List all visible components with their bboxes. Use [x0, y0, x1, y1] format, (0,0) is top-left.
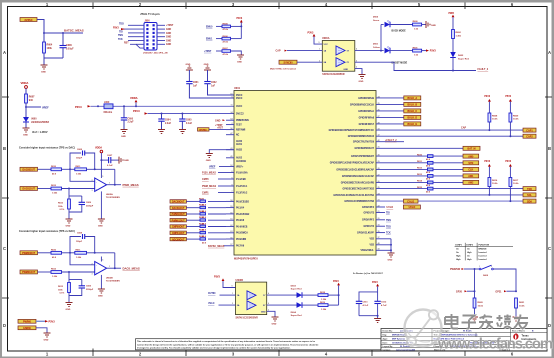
svg-text:R612: R612 [51, 185, 57, 187]
port CLK [463, 167, 479, 171]
svg-text:UVLO: UVLO [409, 206, 416, 209]
port CALO [404, 199, 419, 203]
svg-text:JTAG2X7_254_5P1L-2N: JTAG2X7_254_5P1L-2N [143, 52, 168, 55]
svg-text:C: C [3, 246, 6, 251]
svg-text:GND: GND [98, 296, 103, 298]
svg-text:R611: R611 [417, 161, 423, 163]
svg-text:C609: C609 [86, 286, 92, 288]
svg-text:U601: U601 [234, 87, 241, 90]
svg-text:This schematic is shared a lic: This schematic is shared a licensed as-i… [137, 340, 316, 343]
svg-text:P5V0: P5V0 [505, 96, 511, 98]
watermark char 1 [462, 316, 477, 329]
wire gnd pin [355, 69, 362, 75]
svg-text:P3V3: P3V3 [75, 105, 82, 109]
wire [43, 58, 45, 65]
svg-text:A: A [3, 50, 6, 55]
svg-text:P6.0/CB1SO: P6.0/CB1SO [236, 201, 249, 203]
MCU right pin numbers [378, 95, 381, 250]
port PWM60OUT [20, 251, 38, 255]
svg-text:GND: GND [431, 25, 436, 27]
svg-text:BUCK MODE: BUCK MODE [392, 31, 407, 33]
svg-text:P3V3: P3V3 [237, 18, 243, 20]
svg-text:AUX3/CB: AUX3/CB [236, 160, 246, 163]
port GND60 [18, 326, 36, 330]
svg-text:4.7uF: 4.7uF [381, 304, 387, 307]
svg-text:Drawn By:: Drawn By: [383, 331, 393, 333]
svg-text:GPIO/CLKUPWM/MCUSYN0: GPIO/CLKUPWM/MCUSYN0 [344, 201, 374, 203]
power P3V3 pullup1 [484, 96, 491, 106]
MCU right pin names [329, 98, 375, 252]
svg-text:SN74LVC2G34DBVR: SN74LVC2G34DBVR [322, 73, 345, 76]
svg-text:100k: 100k [47, 47, 53, 50]
node junction [25, 106, 27, 108]
svg-text:Yellow: Yellow [373, 47, 380, 49]
svg-text:Super Red: Super Red [291, 289, 303, 291]
watermark char 0 [445, 314, 458, 329]
ground [359, 75, 366, 79]
svg-text:DVCC: DVCC [236, 98, 243, 100]
wire vminus [100, 275, 102, 289]
port BAT_MEAS [376, 147, 463, 149]
svg-text:Inverted: Inverted [479, 258, 488, 261]
svg-text:PWM60OUT: PWM60OUT [172, 214, 186, 216]
svg-text:TEST: TEST [236, 125, 242, 127]
svg-text:R620: R620 [199, 198, 205, 200]
svg-text:GND: GND [204, 64, 209, 66]
diode U60 LM4040 [23, 117, 50, 128]
svg-text:GPIO/UT2: GPIO/UT2 [363, 226, 374, 228]
capacitor to gnd [81, 196, 83, 202]
node TMS [376, 219, 385, 221]
svg-text:High: High [456, 255, 461, 257]
svg-text:R624: R624 [199, 222, 205, 225]
svg-text:100pF: 100pF [76, 241, 83, 243]
wire out2 [267, 304, 297, 306]
svg-text:R618: R618 [320, 292, 326, 294]
node junction [488, 129, 490, 131]
svg-text:Consider higher input resistan: Consider higher input resistance (TPS vs… [19, 147, 75, 150]
svg-text:R622: R622 [199, 211, 205, 213]
LED D602 down [450, 52, 456, 58]
ground [272, 317, 279, 321]
svg-text:VSS: VSS [369, 245, 374, 247]
svg-text:0.1%: 0.1% [60, 209, 65, 211]
svg-text:5: 5 [102, 260, 103, 262]
svg-text:R610: R610 [417, 154, 423, 156]
svg-text:MSP430 Team: MSP430 Team [392, 334, 406, 337]
svg-text:Super Red: Super Red [458, 58, 470, 60]
svg-text:2: 2 [92, 180, 93, 182]
node junction [69, 252, 71, 254]
node FAULT_2 [376, 141, 404, 143]
svg-text:2: 2 [92, 263, 93, 265]
svg-text:BAT_M: BAT_M [467, 148, 475, 151]
node junction [69, 168, 71, 170]
svg-text:Inverted: Inverted [479, 251, 488, 254]
wire minus input [70, 253, 95, 265]
svg-text:+TRST: +TRST [215, 124, 223, 127]
node junction [181, 113, 183, 115]
svg-text:2x Routes (x) for 74LVC2G17: 2x Routes (x) for 74LVC2G17 [353, 272, 384, 275]
resistor R615 [376, 188, 428, 190]
svg-text:10.0k: 10.0k [492, 183, 498, 185]
svg-text:Date:: Date: [383, 341, 388, 344]
svg-text:DVCC2: DVCC2 [236, 113, 244, 115]
wires jtag right [157, 25, 165, 44]
svg-text:D601: D601 [373, 44, 379, 46]
port SCL [523, 193, 536, 197]
ground [98, 219, 105, 223]
wire [44, 57, 63, 59]
op-amp U602A [95, 178, 107, 191]
svg-text:LM4040A25IDBZ: LM4040A25IDBZ [31, 121, 50, 124]
svg-text:GPIO/ESBPCLK2ABYPIN2/CALVDCACA: GPIO/ESBPCLK2ABYPIN2/CALVDCACAP [330, 162, 375, 165]
svg-text:P6.2/A5/CB2: P6.2/A5/CB2 [236, 213, 250, 216]
resistor R602 [452, 30, 455, 39]
svg-text:GND: GND [186, 64, 191, 66]
svg-text:TMS: TMS [118, 35, 123, 37]
svg-text:R617: R617 [513, 180, 519, 182]
node junction [452, 70, 454, 72]
port BULK_E [376, 123, 404, 125]
svg-text:GND: GND [66, 309, 71, 311]
svg-text:TMS: TMS [386, 220, 391, 222]
ground right [119, 157, 123, 164]
capacitor C607 [100, 159, 102, 161]
watermark char 2 [479, 315, 493, 329]
svg-text:Size of Sheet:: Size of Sheet: [512, 330, 525, 333]
MCU left pin stubs [226, 120, 234, 246]
ground up C601 [186, 66, 193, 70]
svg-text:C612: C612 [381, 302, 387, 304]
svg-text:10.0k: 10.0k [519, 305, 525, 307]
wire VREF stub [26, 106, 41, 108]
svg-text:C605: C605 [186, 120, 192, 122]
svg-text:2.2uF: 2.2uF [165, 123, 172, 125]
svg-text:GP20: GP20 [456, 290, 463, 293]
IC U601 body [234, 91, 376, 256]
svg-text:R609: R609 [513, 115, 519, 117]
svg-text:SN74LVC2G34DBVR: SN74LVC2G34DBVR [236, 316, 259, 319]
svg-text:1: 1 [479, 266, 480, 268]
svg-text:RST: RST [124, 43, 129, 45]
svg-text:PWR60: PWR60 [23, 322, 32, 324]
MCU left pin names [236, 95, 250, 248]
svg-text:GPIO/USCLKUPIBACTFACCLKUSYN1: GPIO/USCLKUPIBACTFACCLKUSYN1 [333, 194, 374, 197]
svg-text:10.0k: 10.0k [492, 119, 498, 121]
svg-text:GPIO/SCM2CTKG/UARTTXD2: GPIO/SCM2CTKG/UARTTXD2 [342, 188, 374, 191]
wire CAP2 net [376, 135, 523, 137]
svg-text:GPIO/UCLKUPF: GPIO/UCLKUPF [357, 233, 375, 235]
svg-text:P3V3: P3V3 [484, 161, 490, 163]
svg-text:1uF: 1uF [193, 85, 198, 87]
power P3V3 [36, 320, 45, 322]
resistor R601 row EMU0 [206, 24, 241, 32]
svg-text:PWR_MEAS: PWR_MEAS [123, 183, 139, 187]
svg-text:GND: GND [166, 29, 171, 31]
svg-text:GPIO/ERFWAUXPWART/VCOMPBURTFCC: GPIO/ERFWAUXPWART/VCOMPBURTFCC [329, 129, 375, 132]
resistor R609b [318, 304, 328, 307]
svg-text:1: 1 [109, 266, 110, 268]
resistor R621s [515, 298, 518, 308]
power VDDA [21, 81, 29, 94]
svg-text:6: 6 [268, 303, 269, 305]
svg-text:GPIO/SBW/ADC10CLK: GPIO/SBW/ADC10CLK [350, 103, 375, 106]
svg-text:NC: NC [236, 135, 240, 137]
svg-text:+TRST: +TRST [166, 25, 174, 27]
svg-text:PMM/SVSIN: PMM/SVSIN [236, 120, 249, 122]
svg-text:2.2uF: 2.2uF [128, 122, 135, 124]
svg-text:CONF1: CONF1 [455, 245, 463, 247]
svg-text:VCC: VCC [324, 44, 329, 46]
resistor R608 [488, 113, 491, 122]
svg-text:R613: R613 [58, 286, 64, 288]
svg-text:P3V3: P3V3 [214, 275, 221, 278]
svg-text:GPIO/RFWPxB: GPIO/RFWPxB [358, 98, 374, 100]
svg-text:S600: S600 [483, 275, 489, 277]
svg-text:GND: GND [23, 135, 28, 137]
svg-text:AUX1: AUX1 [236, 143, 243, 146]
wire bottom [359, 315, 378, 317]
ground [121, 130, 128, 134]
resistor R616 [186, 236, 226, 244]
svg-text:BULK_D: BULK_D [407, 117, 417, 120]
svg-text:TCK: TCK [118, 39, 123, 41]
svg-text:5: 5 [102, 176, 103, 178]
svg-text:AUX0: AUX0 [236, 140, 243, 143]
svg-text:U602A: U602A [106, 193, 113, 196]
svg-text:GPIO/ESM2CTG/UARCLK2APB: GPIO/ESM2CTG/UARCLK2APB [341, 181, 375, 184]
svg-text:CAP2: CAP2 [526, 135, 533, 138]
svg-text:AVCC: AVCC [236, 105, 243, 108]
resistor R603 row TRST [204, 48, 241, 56]
svg-text:BULK_E: BULK_E [408, 123, 418, 126]
resistor R614 [186, 222, 226, 231]
resistor R613 [376, 175, 428, 177]
resistor R-in1 [38, 252, 52, 254]
port CMP60OUT [170, 225, 186, 229]
svg-text:AUX2: AUX2 [236, 157, 243, 160]
svg-text:C600: C600 [128, 118, 134, 120]
pin numbers [92, 260, 111, 276]
svg-text:CAP1: CAP1 [526, 129, 533, 132]
node junction [240, 25, 242, 27]
svg-text:CAP: CAP [276, 50, 281, 53]
svg-text:TDO: TDO [119, 24, 124, 26]
svg-text:GPIO/UPF0: GPIO/UPF0 [362, 207, 375, 209]
svg-text:Inverted: Inverted [479, 254, 488, 257]
svg-text:R619: R619 [320, 302, 326, 304]
svg-text:0.01uF: 0.01uF [66, 47, 74, 50]
resistor R617 [509, 178, 512, 187]
svg-text:C607: C607 [107, 155, 113, 157]
svg-text:D600: D600 [373, 17, 379, 19]
svg-text:R612: R612 [51, 269, 57, 271]
svg-text:GND: GND [66, 226, 71, 228]
svg-text:TLV2780IDBV: TLV2780IDBV [106, 281, 121, 283]
power PWR [237, 18, 243, 39]
svg-text:P1.2/TA0.1: P1.2/TA0.1 [236, 185, 248, 188]
svg-text:DAC61OUT: DAC61OUT [23, 188, 36, 191]
wire output [107, 267, 121, 269]
svg-text:DAC61OUT: DAC61OUT [172, 207, 185, 210]
port DAC61OUT [20, 187, 38, 191]
svg-text:D603: D603 [291, 285, 297, 287]
svg-text:VDDA: VDDA [130, 96, 138, 100]
power P5V0 pullup2 [505, 96, 512, 106]
svg-text:BULK_A: BULK_A [407, 97, 417, 100]
svg-text:R621: R621 [519, 302, 525, 304]
svg-text:Appr:: Appr: [383, 338, 389, 341]
svg-text:GPIO/UT3: GPIO/UT3 [363, 212, 374, 214]
node junction [62, 32, 64, 34]
svg-text:leveraged as production worthy: leveraged as production worthy. You shou… [137, 347, 291, 350]
svg-text:GND: GND [166, 37, 171, 39]
node junction [94, 252, 96, 254]
svg-text:P3V3: P3V3 [333, 281, 339, 283]
svg-text:R612: R612 [417, 168, 423, 170]
svg-text:VSS: VSS [369, 239, 374, 241]
port DAC60OUT [170, 200, 186, 204]
node junction [380, 50, 382, 52]
svg-text:MULT SYNC 3.3V headend: MULT SYNC 3.3V headend [270, 69, 297, 71]
svg-text:RST/NMI: RST/NMI [236, 130, 246, 132]
svg-text:GND: GND [388, 260, 393, 262]
svg-text:0.1uF: 0.1uF [186, 123, 193, 125]
svg-text:www.elecfans.com: www.elecfans.com [437, 337, 553, 353]
svg-text:High: High [456, 259, 461, 261]
port BULK_C [376, 110, 404, 112]
ground [44, 333, 51, 337]
svg-text:C608: C608 [77, 232, 83, 234]
port BULK_A [376, 97, 404, 99]
svg-text:P6.7/A9: P6.7/A9 [236, 245, 245, 248]
svg-text:1.30k: 1.30k [321, 309, 327, 311]
resistor to gnd [68, 189, 70, 197]
svg-text:C604: C604 [165, 119, 171, 122]
node junction [68, 271, 70, 273]
svg-text:1.00k: 1.00k [76, 173, 82, 175]
svg-text:OUT60: OUT60 [208, 293, 216, 295]
resistor to gnd [68, 272, 70, 280]
svg-text:ADC60OUT: ADC60OUT [172, 238, 185, 241]
svg-text:TDI: TDI [119, 31, 123, 33]
svg-text:BULK_B: BULK_B [407, 104, 417, 107]
svg-text:GND: GND [206, 160, 211, 162]
svg-text:VSSA/VREF-: VSSA/VREF- [360, 249, 374, 252]
svg-text:TLV2780IDBV: TLV2780IDBV [106, 197, 121, 199]
svg-text:+FAULT_2: +FAULT_2 [385, 139, 397, 142]
power VCCA arrow [130, 96, 138, 107]
MCU left pin numbers [230, 93, 233, 246]
svg-text:1uF: 1uF [211, 85, 216, 87]
svg-text:R625: R625 [199, 230, 205, 232]
wire CAP1 net [376, 129, 523, 131]
resistor R611 [186, 205, 226, 213]
svg-text:GND: GND [44, 340, 49, 342]
svg-text:5: 5 [232, 286, 233, 288]
watermark char 3 [497, 315, 512, 329]
svg-text:UVLO: UVLO [208, 303, 215, 305]
resistor R-in2 [38, 188, 52, 190]
port SYN [463, 161, 479, 165]
node TDI [376, 212, 385, 214]
wire out1 [267, 294, 297, 296]
svg-text:1.00k: 1.00k [52, 193, 58, 195]
svg-text:Vref = 1.465V: Vref = 1.465V [32, 131, 48, 134]
svg-text:A: A [548, 50, 551, 55]
svg-text:GP21: GP21 [495, 290, 502, 293]
connector pins [146, 24, 154, 49]
port PWM61OUT [20, 270, 38, 274]
node TDO [376, 225, 385, 227]
resistor feedback [70, 168, 75, 170]
svg-text:100pF: 100pF [76, 158, 83, 160]
svg-text:R610: R610 [51, 250, 57, 252]
capacitor C604 [158, 114, 171, 130]
resistor R-in1 [38, 168, 52, 170]
svg-text:1: 1 [232, 293, 233, 295]
svg-text:D: D [548, 323, 551, 328]
svg-text:3V3SC: 3V3SC [24, 18, 32, 22]
wire AVSS to gnd [209, 150, 234, 154]
svg-text:R626: R626 [199, 236, 205, 238]
svg-text:CMP60OUT: CMP60OUT [172, 227, 185, 229]
svg-text:5: 5 [319, 42, 320, 44]
svg-text:MSP430F67641IPEU: MSP430F67641IPEU [234, 258, 258, 261]
pin numbers [92, 176, 111, 192]
resistor R64 [43, 33, 53, 58]
svg-text:10.0k: 10.0k [513, 119, 519, 121]
svg-text:SYNC60: SYNC60 [284, 62, 294, 64]
port 3V3SC [20, 18, 37, 22]
node junction [68, 188, 70, 190]
svg-text:P3V3: P3V3 [308, 32, 315, 35]
svg-text:C608: C608 [77, 149, 83, 151]
wire gnd pin [267, 311, 275, 317]
svg-text:47.0k: 47.0k [223, 40, 229, 43]
svg-text:GPIO/SRX2SCLM2ALVCACAP: GPIO/SRX2SCLM2ALVCACAP [342, 175, 375, 178]
svg-text:U600: U600 [31, 119, 37, 121]
svg-text:C609: C609 [86, 202, 92, 204]
svg-text:GPIO/ESBCLK2ACLM2/RXLNACAP: GPIO/ESBCLK2ACLM2/RXLNACAP [336, 168, 374, 171]
port PWM60OUT [170, 212, 186, 216]
svg-text:BULK_C: BULK_C [407, 110, 417, 113]
capacitor C612 [377, 292, 379, 301]
resistor R614 [376, 181, 428, 183]
wire feedback [114, 253, 116, 268]
svg-text:3: 3 [92, 190, 93, 192]
svg-text:PWR/SW: PWR/SW [450, 268, 461, 271]
svg-text:-: - [96, 181, 97, 184]
port BULK_B [376, 103, 404, 105]
wire [148, 113, 235, 115]
buffer triangle 2 [336, 58, 345, 67]
port CMP61OUT [170, 231, 186, 235]
port AM0 [463, 154, 479, 158]
resistor R611 [376, 162, 428, 164]
svg-text:GND: GND [98, 226, 103, 228]
svg-text:-: - [96, 264, 97, 267]
svg-text:warrant that the design will m: warrant that the design will meet the sp… [137, 343, 319, 346]
svg-text:GND: GND [166, 44, 171, 46]
svg-text:TDO: TDO [386, 226, 391, 228]
svg-text:Contact:: Contact: [383, 348, 391, 351]
resistor R610 [376, 155, 428, 157]
svg-text:GND: GND [124, 160, 129, 162]
wires jtag left [122, 25, 144, 44]
resistor R615 [186, 230, 226, 238]
